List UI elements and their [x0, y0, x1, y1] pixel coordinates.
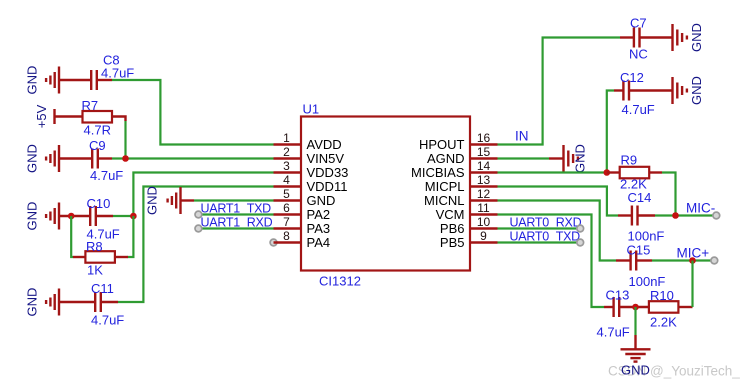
wire pin9 PB5 to UART0_TXD dot: [498, 241, 581, 243]
svg-text:4.7uF: 4.7uF: [597, 325, 630, 340]
wire C12 riser to junction: [607, 91, 614, 173]
junction C13 / R10 / GND: [632, 304, 639, 311]
node pin8 stub dot: [270, 239, 277, 246]
svg-text:4.7uF: 4.7uF: [90, 168, 123, 183]
pin 4: [274, 173, 348, 194]
svg-text:MICBIAS: MICBIAS: [411, 165, 465, 180]
wire C13 left stub: [604, 306, 613, 308]
capacitor C13: [597, 288, 630, 340]
svg-text:U1: U1: [303, 102, 320, 117]
wire junction down to R8 left: [71, 216, 85, 257]
junction C10 right / R8 / pin3: [130, 213, 137, 220]
svg-text:PA2: PA2: [307, 207, 331, 222]
svg-text:4.7uF: 4.7uF: [91, 313, 124, 328]
svg-text:VCM: VCM: [436, 207, 465, 222]
svg-text:MICNL: MICNL: [424, 193, 464, 208]
pin 14: [411, 159, 497, 180]
svg-text:2.2K: 2.2K: [650, 315, 677, 330]
svg-text:AVDD: AVDD: [307, 137, 342, 152]
svg-text:GND: GND: [307, 193, 336, 208]
svg-text:4: 4: [283, 173, 290, 187]
capacitor C15: [627, 243, 666, 290]
wire C15 to MIC+ dot: [652, 259, 714, 261]
wire GND to C11 left plate: [59, 301, 95, 303]
wire pin12 MICNL to C15: [498, 201, 617, 261]
svg-text:PA3: PA3: [307, 221, 331, 236]
pin 5: [274, 187, 336, 208]
svg-text:HPOUT: HPOUT: [419, 137, 465, 152]
ground GND (C8 net): [25, 66, 60, 95]
svg-text:9: 9: [480, 229, 487, 243]
svg-text:R7: R7: [82, 98, 99, 113]
node UART0_TXD end dot: [577, 239, 584, 246]
svg-text:R8: R8: [86, 239, 103, 254]
svg-text:11: 11: [477, 201, 490, 215]
ground GND (pin5): [145, 186, 181, 215]
svg-text:AGND: AGND: [427, 151, 465, 166]
wire R9 right down to MIC-: [649, 173, 675, 216]
svg-text:C14: C14: [628, 190, 652, 205]
wire C15 left stub: [616, 259, 630, 261]
svg-text:CI1312: CI1312: [319, 274, 361, 289]
svg-text:100nF: 100nF: [629, 274, 666, 289]
wire junction down to GND: [634, 307, 636, 349]
capacitor C14: [628, 190, 665, 244]
junction MIC- / R9: [672, 212, 679, 219]
ground GND (C11 net): [25, 288, 60, 317]
pin 6: [274, 201, 331, 222]
wire UART1_TXD to pin6 PA2: [198, 213, 273, 215]
svg-text:GND: GND: [145, 186, 160, 215]
ground GND (C13 net, bottom): [621, 349, 651, 361]
ground GND (C9 net): [25, 144, 60, 173]
pin 13: [425, 173, 498, 194]
pin 2: [274, 145, 345, 166]
svg-text:PA4: PA4: [307, 235, 331, 250]
resistor R10: [649, 288, 679, 330]
capacitor C11: [91, 281, 124, 328]
wire C13 right to R10: [619, 306, 649, 308]
svg-text:VDD11: VDD11: [307, 179, 348, 194]
svg-text:14: 14: [477, 159, 491, 173]
wire C10 to pin3 riser: [113, 215, 133, 217]
pin 10: [440, 215, 498, 236]
pin 11: [436, 201, 498, 222]
IC U1 CI1312: [301, 102, 470, 289]
svg-text:100nF: 100nF: [628, 229, 665, 244]
pin 15: [427, 145, 498, 166]
wire R8 right up to junction: [115, 216, 133, 257]
capacitor C10: [87, 196, 120, 242]
wire GND to C9 left plate: [59, 157, 92, 159]
svg-text:MICPL: MICPL: [425, 179, 465, 194]
svg-text:GND: GND: [25, 288, 40, 317]
junction C10 left / R8: [68, 213, 75, 220]
node UART0_RXD end dot: [577, 225, 584, 232]
capacitor C8: [91, 53, 134, 91]
wire C11 to pin4 VDD11: [118, 187, 274, 303]
watermark: [608, 364, 740, 379]
net label UART1_RXD: [201, 216, 273, 230]
wire C14 right stub: [638, 214, 656, 216]
wire pin10 PB6 to UART0_RXD dot: [498, 227, 581, 229]
net label UART0_TXD: [510, 230, 581, 244]
wire C9 to pin2 VIN5V: [112, 157, 274, 159]
svg-text:C11: C11: [91, 281, 114, 296]
ground GND (pin15): [564, 144, 588, 173]
svg-text:GND: GND: [689, 23, 704, 52]
pin 1: [274, 131, 342, 152]
resistor R9: [620, 153, 650, 192]
wire C8 to pin1 AVDD: [112, 80, 274, 145]
node UART1_TXD end dot: [195, 211, 202, 218]
wire GND to C8 left plate: [59, 79, 91, 81]
wire C10 right stub: [96, 215, 113, 217]
ground GND (C10 net): [25, 202, 60, 231]
svg-text:10: 10: [477, 215, 491, 229]
wire C12 left stub: [614, 89, 623, 91]
wire C8 right stub: [97, 79, 112, 81]
wire riser to pin3 VDD33: [133, 173, 273, 217]
wire R10 right up to MIC+: [678, 261, 692, 308]
svg-text:8: 8: [283, 229, 290, 243]
ground GND (C7 net): [673, 23, 705, 52]
wire pin15 AGND to GND: [498, 157, 564, 159]
svg-text:GND: GND: [573, 144, 588, 173]
wire GND to pin5: [181, 199, 274, 201]
wire C7 right to GND: [640, 36, 673, 38]
pin 16: [419, 131, 498, 152]
wire pin16 HPOUT to C7: [498, 38, 621, 145]
wire R7 right to junction: [112, 117, 126, 159]
wire pin13 MICPL to C14: [498, 187, 619, 216]
pin 12: [424, 187, 497, 208]
svg-text:15: 15: [477, 145, 491, 159]
wire pin14 MICBIAS to junction: [498, 171, 607, 173]
svg-text:1K: 1K: [87, 263, 103, 278]
wire C14 left stub: [618, 214, 632, 216]
svg-text:2: 2: [283, 145, 290, 159]
svg-text:C9: C9: [89, 138, 106, 153]
wire C9 right stub: [98, 157, 112, 159]
pin 7: [274, 215, 331, 236]
svg-text:4.7uF: 4.7uF: [622, 102, 655, 117]
svg-text:13: 13: [477, 173, 491, 187]
svg-text:MIC-: MIC-: [686, 201, 715, 216]
wire pin11 VCM down to C13: [498, 215, 605, 308]
svg-text:3: 3: [283, 159, 290, 173]
svg-text:6: 6: [283, 201, 290, 215]
node MIC- end dot: [713, 212, 720, 219]
pin 9: [440, 229, 498, 250]
svg-text:GND: GND: [25, 202, 40, 231]
svg-text:MIC+: MIC+: [677, 246, 710, 261]
wire +5V to R7: [55, 115, 83, 117]
svg-text:VIN5V: VIN5V: [307, 151, 345, 166]
svg-text:7: 7: [283, 215, 290, 229]
svg-text:NC: NC: [629, 47, 648, 62]
junction MIC+ / R10: [689, 257, 696, 264]
svg-text:R10: R10: [650, 288, 674, 303]
pin 3: [274, 159, 349, 180]
node UART1_RXD end dot: [195, 225, 202, 232]
svg-text:12: 12: [477, 187, 491, 201]
net label MIC-: [686, 201, 715, 216]
svg-text:C10: C10: [87, 196, 111, 211]
svg-text:VDD33: VDD33: [307, 165, 349, 180]
svg-text:GND: GND: [689, 76, 704, 105]
wire C11 right stub: [101, 301, 118, 303]
resistor R8: [85, 239, 115, 278]
resistor R7: [82, 98, 113, 138]
wire junction to R9: [607, 171, 620, 173]
svg-text:R9: R9: [621, 153, 638, 168]
svg-text:IN: IN: [515, 129, 529, 144]
svg-text:GND: GND: [25, 144, 40, 173]
svg-text:C7: C7: [630, 16, 647, 31]
svg-text:+5V: +5V: [34, 104, 49, 128]
wire C7 left stub: [620, 36, 634, 38]
net label UART0_RXD: [510, 216, 582, 230]
svg-text:C15: C15: [627, 243, 651, 258]
pin 8: [274, 229, 331, 250]
ground GND (C12 net): [673, 76, 705, 105]
wire GND to C10 left plate: [59, 215, 90, 217]
capacitor C12: [620, 70, 655, 117]
svg-text:4.7R: 4.7R: [84, 123, 111, 138]
capacitor C9: [89, 138, 123, 183]
wire C14 to MIC- dot: [655, 214, 716, 216]
svg-text:C12: C12: [620, 70, 644, 85]
svg-text:GND: GND: [25, 66, 40, 95]
svg-text:4.7uF: 4.7uF: [101, 66, 134, 81]
net label UART1_TXD: [201, 202, 272, 216]
wire UART1_RXD to pin7 PA3: [198, 227, 273, 229]
svg-text:5: 5: [283, 187, 290, 201]
svg-text:GND: GND: [621, 363, 650, 378]
net label IN: [515, 129, 529, 144]
ground label GND (bottom): [621, 363, 650, 378]
svg-text:16: 16: [477, 131, 491, 145]
capacitor C7: [629, 16, 648, 62]
net label MIC+: [677, 246, 710, 261]
power +5V: [34, 104, 55, 128]
junction C9/R7/pin2: [122, 155, 129, 162]
junction MICBIAS / R9 / C12: [604, 169, 611, 176]
svg-text:PB6: PB6: [440, 221, 465, 236]
node MIC+ end dot: [711, 257, 718, 264]
svg-text:PB5: PB5: [440, 235, 465, 250]
wire C12 right to GND: [629, 89, 673, 91]
svg-text:C13: C13: [606, 288, 630, 303]
svg-text:1: 1: [283, 131, 290, 145]
wire C15 right stub: [636, 259, 652, 261]
